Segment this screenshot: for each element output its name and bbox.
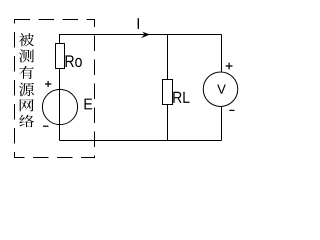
plus sign of E xyxy=(45,81,51,87)
label 测 (vertical caption char 2) xyxy=(19,49,34,62)
wire: R0 bottom lead through source E to bottom rail xyxy=(59,69,61,141)
current arrow on top rail xyxy=(141,32,150,38)
label E xyxy=(85,99,93,110)
plus sign of voltmeter xyxy=(226,63,233,70)
label I xyxy=(138,18,139,29)
label 网 (vertical caption char 5) xyxy=(20,99,34,111)
label RL xyxy=(173,92,189,103)
label 络 (vertical caption char 6) xyxy=(19,115,34,127)
voltmeter circle xyxy=(203,72,238,107)
source E circle xyxy=(42,89,77,124)
minus sign of voltmeter xyxy=(229,109,234,111)
label Ro xyxy=(66,55,82,67)
minus sign of E xyxy=(43,125,49,127)
label 被 (vertical caption char 1) xyxy=(19,33,34,46)
wire: RL top lead xyxy=(167,35,169,80)
resistor RL body xyxy=(163,80,173,105)
label 源 (vertical caption char 4) xyxy=(19,83,34,97)
wire: RL bottom lead xyxy=(167,105,169,141)
label V inside voltmeter xyxy=(217,85,226,94)
label 有 (vertical caption char 3) xyxy=(19,66,34,79)
dashed box: active network under test xyxy=(15,20,95,158)
resistor R0 body xyxy=(56,44,65,69)
wire: R0 top lead and top rail to voltmeter branch xyxy=(60,35,222,44)
wire: voltmeter bottom lead xyxy=(221,106,223,140)
wire: voltmeter top lead xyxy=(221,35,223,73)
wire: bottom rail xyxy=(60,140,222,142)
